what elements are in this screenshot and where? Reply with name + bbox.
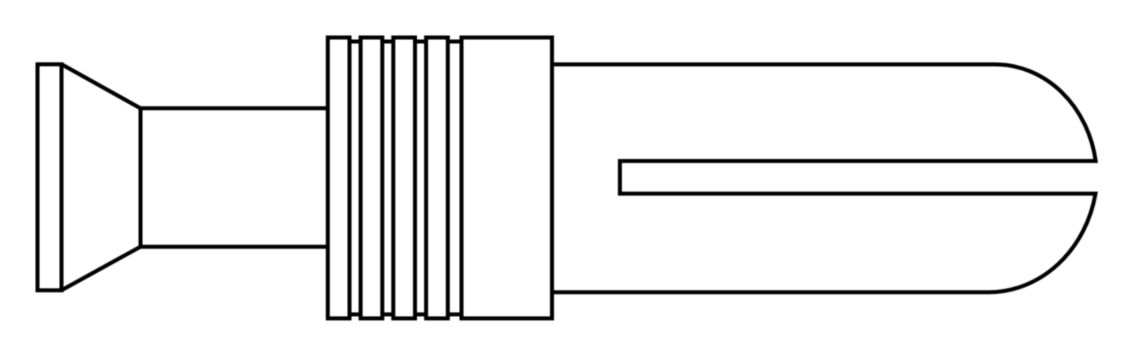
valley 2 top line <box>382 40 393 44</box>
rib 3 <box>393 38 415 319</box>
shaft bottom line <box>141 245 328 249</box>
capsule body with slot <box>552 64 1096 292</box>
tapered cone <box>62 64 141 290</box>
collar block <box>462 38 553 319</box>
valley 3 bottom line <box>415 312 426 316</box>
rib 1 <box>328 38 350 319</box>
valley 2 bottom line <box>382 312 393 316</box>
valley 4 bottom line <box>448 312 462 316</box>
valley 1 top line <box>350 40 361 44</box>
valley 1 bottom line <box>350 312 361 316</box>
rib 2 <box>361 38 383 319</box>
rib 4 <box>426 38 448 319</box>
shaft top line <box>141 106 328 110</box>
valley 4 top line <box>448 40 462 44</box>
valley 3 top line <box>415 40 426 44</box>
flange head plate <box>38 64 62 290</box>
